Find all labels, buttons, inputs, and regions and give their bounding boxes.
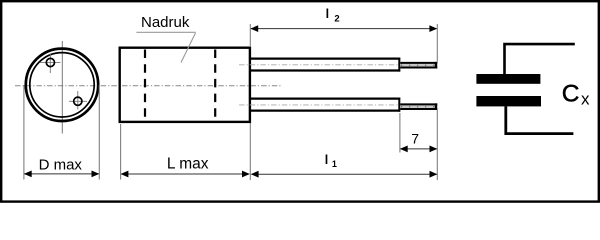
svg-text:D max: D max [39, 156, 83, 173]
label 7 [411, 131, 419, 147]
svg-text:C: C [562, 81, 580, 108]
extension line body right edge (for l2 top, l1 bottom) [249, 24, 251, 180]
top lead hole [46, 58, 54, 66]
body left dashed line [144, 50, 146, 120]
svg-text:2: 2 [334, 14, 339, 25]
bottom lead hole [74, 97, 82, 105]
schematic capacitor Cx: bottom plate [476, 96, 541, 106]
vertical centerline of front view [61, 41, 63, 134]
capacitor body side view rectangle [120, 48, 250, 122]
label Cx [562, 81, 590, 109]
Nadruk label underline [136, 31, 195, 33]
svg-text:l: l [326, 7, 329, 21]
svg-text:l: l [325, 153, 328, 167]
label l2 [326, 7, 340, 24]
body right dashed line [214, 50, 216, 120]
extension line L max left [120, 124, 122, 180]
top lead centerline [239, 64, 400, 66]
svg-text:L max: L max [167, 156, 209, 173]
svg-text:1: 1 [332, 159, 337, 169]
schematic capacitor Cx: top plate [476, 74, 540, 84]
top lead thick body [251, 58, 401, 72]
svg-text:7: 7 [411, 131, 419, 147]
dimension l2 [250, 25, 437, 32]
dimension l1 [251, 171, 437, 178]
label D max [39, 156, 83, 173]
capacitor body front view inner circle [30, 53, 94, 117]
dimension L max [121, 171, 250, 178]
label l1 [325, 153, 337, 169]
svg-text:x: x [581, 90, 590, 109]
dimension 7 [400, 146, 437, 153]
bottom lead thick body [251, 98, 401, 112]
label L max [167, 156, 209, 173]
extension line tip start (for 7 dim) [399, 113, 401, 153]
Nadruk label [141, 14, 190, 31]
svg-text:Nadruk: Nadruk [141, 14, 190, 31]
extension line D max right [98, 85, 100, 180]
bottom lead hole crosshair [69, 91, 87, 110]
dimension D max [24, 171, 99, 178]
horizontal axis centerline [15, 85, 282, 87]
extension line lead tip end (right, shared l2/7/l1) [436, 24, 438, 180]
schematic capacitor Cx: bottom wire [506, 106, 574, 133]
bottom lead thin tip [400, 103, 437, 110]
Nadruk leader line [181, 33, 196, 63]
capacitor body front view outer circle [26, 49, 98, 121]
schematic capacitor Cx: top wire [505, 44, 575, 74]
bottom lead centerline [239, 104, 400, 106]
top lead hole crosshair [40, 54, 61, 74]
top lead thin tip [400, 62, 437, 69]
extension line D max left [23, 85, 25, 180]
